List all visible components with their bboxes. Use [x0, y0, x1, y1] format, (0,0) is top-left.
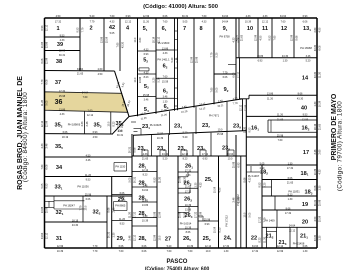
ph8865 box top [114, 201, 128, 203]
lot 26-2 inner box line [178, 192, 190, 194]
svg-text:37: 37 [55, 80, 61, 86]
svg-text:1.30: 1.30 [288, 198, 293, 201]
svg-text:265: 265 [183, 236, 191, 242]
svg-text:PASCO: PASCO [167, 259, 188, 265]
lot 23-4 east line [195, 107, 197, 134]
lot 25 east line [218, 156, 220, 248]
lot 23 mini box left 1 [159, 150, 161, 156]
sliver west line [242, 99, 244, 131]
svg-text:6.93: 6.93 [126, 15, 131, 18]
svg-text:25.98: 25.98 [154, 211, 157, 218]
lot 23-2 east line [151, 135, 153, 156]
lot 23 mini box right 3 [205, 150, 207, 156]
svg-text:15.59: 15.59 [214, 186, 217, 193]
lot 6-1 south line [156, 49, 175, 51]
svg-text:7.60: 7.60 [202, 15, 207, 18]
svg-text:1.30: 1.30 [163, 100, 168, 103]
passage tick 3 [175, 58, 178, 60]
diagonal B main [129, 99, 242, 117]
svg-text:10.0: 10.0 [218, 128, 223, 131]
svg-text:34.64: 34.64 [222, 15, 229, 18]
svg-text:21.65: 21.65 [185, 186, 192, 189]
svg-text:18.19: 18.19 [314, 123, 317, 130]
svg-text:331: 331 [55, 185, 63, 191]
svg-text:6.93: 6.93 [93, 131, 98, 134]
svg-text:43.30: 43.30 [314, 234, 317, 241]
svg-text:6.06: 6.06 [142, 245, 147, 248]
lot 16 south line [246, 136, 317, 138]
svg-text:1: 1 [56, 26, 59, 32]
svg-text:8.66: 8.66 [244, 177, 247, 182]
lot 25 inner box line [198, 215, 203, 217]
svg-text:34.64: 34.64 [142, 189, 149, 192]
lot 26-2 inner box right [189, 188, 191, 193]
lot 34 south line [45, 176, 133, 178]
lot 21 inner line1 [266, 227, 268, 248]
svg-text:161: 161 [251, 126, 259, 132]
svg-text:9.53: 9.53 [259, 182, 262, 187]
svg-text:6.93: 6.93 [303, 15, 308, 18]
ph1150 box right [126, 163, 128, 172]
svg-text:5.05: 5.05 [129, 177, 132, 182]
svg-text:2.60: 2.60 [112, 207, 115, 212]
lot 28-2 south line [132, 186, 157, 188]
lot 29 inner line [112, 220, 132, 222]
svg-text:12.12: 12.12 [46, 24, 49, 31]
svg-text:5.20: 5.20 [176, 57, 179, 62]
svg-text:5.20: 5.20 [158, 77, 161, 82]
svg-text:11.26: 11.26 [129, 211, 132, 218]
svg-text:10.39: 10.39 [314, 168, 317, 175]
svg-text:8.23: 8.23 [259, 237, 262, 242]
lot 29 east line [131, 134, 133, 248]
svg-text:36: 36 [55, 99, 63, 106]
svg-text:30.31: 30.31 [108, 231, 111, 238]
lot 1 south line [45, 36, 81, 38]
lot 23 mini box top 4 [228, 149, 234, 151]
lot 26-4 south line [178, 228, 198, 230]
svg-text:1.30: 1.30 [303, 250, 308, 253]
svg-text:43.30: 43.30 [122, 41, 125, 48]
svg-text:11.26: 11.26 [277, 114, 284, 117]
svg-text:13.86: 13.86 [162, 47, 169, 50]
svg-text:13.86: 13.86 [41, 206, 44, 213]
svg-text:14: 14 [302, 76, 309, 82]
svg-text:1.30: 1.30 [288, 162, 293, 165]
svg-text:12: 12 [281, 26, 287, 32]
svg-text:8: 8 [199, 26, 202, 32]
lot 23 mini box top 2 [181, 149, 187, 151]
passage tick 6 [175, 87, 178, 89]
svg-text:10.0: 10.0 [134, 77, 137, 82]
svg-text:8.66: 8.66 [134, 147, 137, 152]
svg-text:17: 17 [303, 150, 309, 156]
main east vertical [245, 99, 247, 248]
lot 21 inner line4 [296, 227, 298, 248]
lot 5-2 inner box left [138, 68, 140, 71]
svg-text:25.98: 25.98 [217, 133, 224, 136]
svg-text:2.60: 2.60 [318, 149, 321, 154]
lot 23 mini box left 3 [199, 150, 201, 156]
svg-text:17.32: 17.32 [185, 169, 192, 172]
svg-text:1.30: 1.30 [283, 60, 288, 63]
svg-text:15.59: 15.59 [157, 132, 164, 135]
svg-text:2.60: 2.60 [314, 27, 317, 32]
lot 22 east line [261, 165, 263, 248]
svg-text:7.60: 7.60 [281, 20, 286, 23]
lot 26-1 inner box right [187, 172, 189, 177]
svg-text:6.06: 6.06 [223, 76, 228, 79]
svg-text:6.06: 6.06 [303, 20, 308, 23]
lot 18b south line [262, 195, 317, 197]
svg-text:30.31: 30.31 [59, 54, 66, 57]
svg-text:15.59: 15.59 [214, 226, 217, 233]
svg-text:38: 38 [56, 59, 62, 65]
sliver east line [240, 156, 242, 248]
lot 23-3 east line [168, 134, 170, 155]
svg-text:6.06: 6.06 [288, 177, 293, 180]
lot 16 inner west line [267, 120, 269, 132]
svg-text:30.31: 30.31 [129, 146, 132, 153]
svg-text:2: 2 [89, 26, 92, 32]
lot 39 south line [45, 50, 81, 52]
svg-text:5.05: 5.05 [41, 183, 44, 188]
svg-text:27: 27 [165, 237, 171, 243]
svg-text:10.39: 10.39 [157, 137, 164, 140]
svg-text:12.99: 12.99 [46, 57, 49, 64]
svg-text:4.33: 4.33 [263, 15, 268, 18]
svg-text:7.60: 7.60 [211, 87, 214, 92]
svg-text:10.0: 10.0 [228, 158, 233, 161]
lot 16 inner tick line [270, 120, 272, 132]
passage tick 4 [175, 67, 178, 69]
svg-text:25.98: 25.98 [184, 211, 187, 218]
ph1150 box left [113, 163, 115, 172]
svg-text:25.98: 25.98 [204, 218, 211, 221]
passage tick 5 [175, 77, 178, 79]
svg-text:12.12: 12.12 [277, 245, 284, 248]
lot 35-2 east line [83, 111, 85, 133]
svg-text:4.50: 4.50 [93, 136, 98, 139]
svg-text:7.60: 7.60 [117, 42, 120, 47]
svg-text:43.30: 43.30 [297, 97, 304, 100]
svg-text:6.06: 6.06 [303, 245, 308, 248]
svg-text:162: 162 [302, 126, 310, 132]
svg-text:12.12: 12.12 [289, 229, 296, 232]
lot 31 east line [106, 196, 108, 248]
svg-text:181: 181 [301, 171, 309, 177]
lower 23 row south line [132, 155, 246, 157]
lot 28-4 south line [132, 217, 157, 219]
svg-text:4.33: 4.33 [246, 15, 251, 18]
svg-text:13.86: 13.86 [185, 209, 192, 212]
svg-text:43.30: 43.30 [236, 34, 239, 41]
svg-text:6.06: 6.06 [233, 72, 236, 77]
svg-text:(Código: 41000) Altura: 500: (Código: 41000) Altura: 500 [143, 4, 218, 10]
svg-text:3.46: 3.46 [46, 143, 49, 148]
svg-text:7.60: 7.60 [83, 96, 88, 99]
lot 28-1 south line [132, 171, 157, 173]
svg-text:5.05: 5.05 [249, 212, 252, 217]
svg-text:12.12: 12.12 [142, 169, 149, 172]
svg-text:10.0: 10.0 [244, 212, 247, 217]
svg-text:9.53: 9.53 [86, 179, 91, 182]
lot 23 mini box left 4 [227, 150, 229, 156]
ph1150 box bottom [114, 170, 127, 172]
svg-text:4.50: 4.50 [219, 187, 222, 192]
svg-text:4.33: 4.33 [41, 143, 44, 148]
svg-text:8.66: 8.66 [108, 207, 111, 212]
svg-text:30.31: 30.31 [314, 199, 317, 206]
svg-text:4.50: 4.50 [260, 35, 263, 40]
svg-text:PH 18247: PH 18247 [63, 204, 75, 208]
svg-text:15.59: 15.59 [318, 215, 321, 222]
svg-text:4.50: 4.50 [318, 27, 321, 32]
lot 23-6 east line [210, 133, 212, 156]
svg-text:1.30: 1.30 [318, 235, 321, 240]
svg-text:12.12: 12.12 [46, 232, 49, 239]
lot 23 mini box left 0 [141, 150, 143, 156]
svg-text:7.79: 7.79 [93, 250, 98, 253]
svg-text:10.0: 10.0 [118, 129, 123, 132]
svg-text:18.19: 18.19 [153, 36, 156, 43]
wedge box right [140, 129, 142, 136]
svg-text:11.26: 11.26 [143, 20, 150, 23]
svg-text:11.26: 11.26 [142, 199, 149, 202]
svg-text:4.50: 4.50 [56, 15, 61, 18]
ph1150 box top [114, 162, 127, 164]
svg-text:4.33: 4.33 [202, 20, 207, 23]
lot 26-3 inner box right [188, 207, 190, 213]
lot 6-2 south line [156, 77, 175, 79]
svg-text:PH 1150: PH 1150 [115, 165, 125, 169]
svg-text:263: 263 [184, 197, 192, 203]
svg-text:9.53: 9.53 [269, 35, 272, 40]
lot 28 east line [156, 156, 158, 248]
svg-text:7.79: 7.79 [211, 52, 214, 57]
svg-text:PH 17312: PH 17312 [225, 215, 229, 227]
svg-text:7.79: 7.79 [82, 27, 85, 32]
lot 16 inner south line [268, 131, 317, 133]
svg-text:5.20: 5.20 [171, 57, 174, 62]
lot 5-2 south line [138, 73, 157, 75]
svg-text:7.60: 7.60 [188, 250, 193, 253]
svg-text:12.12: 12.12 [262, 20, 269, 23]
svg-text:21.65: 21.65 [241, 34, 244, 41]
passage tick 8 [175, 105, 178, 107]
svg-text:6.93: 6.93 [41, 25, 44, 30]
svg-text:12.99: 12.99 [143, 15, 150, 18]
svg-text:3.46: 3.46 [144, 99, 149, 102]
upper 23 row south line [133, 131, 246, 136]
lot 10 east line [257, 18, 259, 58]
svg-text:12.12: 12.12 [240, 104, 243, 111]
svg-text:13.86: 13.86 [139, 76, 142, 83]
svg-text:20: 20 [302, 220, 308, 226]
svg-text:25.98: 25.98 [46, 206, 49, 213]
svg-text:6.06: 6.06 [41, 58, 44, 63]
svg-text:92: 92 [224, 87, 229, 93]
svg-text:13.86: 13.86 [101, 36, 104, 43]
svg-text:10.39: 10.39 [185, 204, 192, 207]
lot 26-1 inner box line [178, 176, 188, 178]
svg-text:12.99: 12.99 [46, 120, 49, 127]
lot 2 east line [103, 18, 105, 71]
lot 5-2 inner box bottom [139, 70, 149, 72]
svg-text:4.33: 4.33 [186, 174, 191, 177]
svg-text:PH 9758: PH 9758 [219, 35, 230, 39]
svg-text:30.31: 30.31 [117, 134, 124, 137]
svg-text:12.12: 12.12 [87, 114, 94, 117]
svg-text:18.19: 18.19 [72, 219, 79, 222]
svg-text:5.20: 5.20 [143, 215, 148, 218]
svg-text:7.60: 7.60 [274, 35, 277, 40]
lot 23 mini box right 1 [165, 150, 167, 156]
svg-text:12.99: 12.99 [277, 250, 284, 253]
lot 5 east line [155, 18, 157, 114]
svg-text:4.33: 4.33 [200, 182, 203, 187]
block boundary right [316, 18, 318, 248]
svg-text:12.99: 12.99 [291, 34, 294, 41]
svg-text:15.59: 15.59 [106, 36, 109, 43]
svg-text:11.26: 11.26 [244, 126, 247, 133]
svg-text:43.30: 43.30 [184, 176, 187, 183]
lot 26 east line [197, 156, 199, 248]
svg-text:6.06: 6.06 [314, 185, 317, 190]
svg-text:6.06: 6.06 [86, 198, 91, 201]
block boundary bottom [45, 247, 318, 249]
svg-text:7.79: 7.79 [90, 20, 95, 23]
diagonal A west [115, 71, 130, 117]
ph18247 box bottom [54, 208, 84, 210]
svg-text:10.0: 10.0 [108, 121, 111, 126]
ph8865 box right [126, 202, 128, 211]
svg-text:6.06: 6.06 [119, 245, 124, 248]
lot 23 mini box top 0 [142, 149, 148, 151]
ph11467 box top [246, 171, 262, 173]
svg-text:8.23: 8.23 [112, 121, 115, 126]
svg-text:236: 236 [197, 146, 205, 152]
svg-text:43.30: 43.30 [72, 224, 79, 227]
svg-text:239: 239 [233, 124, 241, 130]
svg-text:25.98: 25.98 [277, 134, 284, 137]
svg-text:6.06: 6.06 [163, 15, 168, 18]
svg-text:4.33: 4.33 [143, 153, 148, 156]
lot 32 small box line3 [48, 201, 50, 207]
lot 26-3 south line [178, 206, 198, 208]
svg-text:5.20: 5.20 [183, 136, 188, 139]
svg-text:10.39: 10.39 [142, 220, 149, 223]
svg-text:17.32: 17.32 [134, 211, 137, 218]
lot 33 south line [45, 195, 133, 197]
lot 29 west line [111, 177, 113, 248]
svg-text:4.33: 4.33 [60, 113, 65, 116]
lot 19 inner line [274, 196, 276, 210]
svg-text:4.33: 4.33 [318, 169, 321, 174]
svg-text:11.26: 11.26 [119, 218, 126, 221]
svg-text:12.12: 12.12 [158, 36, 161, 43]
wedge box top [134, 128, 142, 130]
wedge box mid [134, 131, 138, 133]
svg-text:10.39: 10.39 [57, 250, 64, 253]
svg-text:21.65: 21.65 [77, 73, 84, 76]
lot 6-3 south line [156, 97, 175, 99]
lot 25 inner box right [202, 216, 204, 221]
lot 23-5 east line [192, 133, 194, 155]
svg-text:4.33: 4.33 [163, 52, 168, 55]
svg-text:10.0: 10.0 [84, 205, 87, 210]
svg-text:7.60: 7.60 [110, 15, 115, 18]
svg-text:7.79: 7.79 [41, 79, 44, 84]
ph18247 box top [54, 200, 84, 202]
svg-text:1.30: 1.30 [314, 101, 317, 106]
svg-text:34.64: 34.64 [82, 91, 89, 94]
svg-text:17.32: 17.32 [238, 71, 241, 78]
svg-text:4.50: 4.50 [314, 216, 317, 221]
svg-text:355: 355 [55, 144, 63, 150]
svg-text:10.39: 10.39 [185, 226, 192, 229]
svg-text:25.98: 25.98 [179, 211, 182, 218]
svg-text:7.79: 7.79 [80, 205, 83, 210]
lot 23 mini box left 2 [180, 150, 182, 156]
lot 23 mini box top 1 [160, 149, 166, 151]
svg-text:40: 40 [301, 106, 307, 112]
svg-text:17.32: 17.32 [185, 190, 192, 193]
svg-text:353: 353 [94, 123, 102, 129]
svg-text:PH 1898 B: PH 1898 B [68, 123, 81, 127]
svg-text:39: 39 [57, 42, 63, 48]
svg-text:61: 61 [162, 26, 167, 32]
lot 24 east line [235, 135, 237, 248]
svg-text:6.06: 6.06 [63, 131, 68, 134]
svg-text:12.99: 12.99 [191, 56, 194, 63]
passage strip line [177, 18, 179, 110]
lot 32 small box line [45, 200, 55, 202]
svg-text:8.23: 8.23 [219, 227, 222, 232]
svg-text:10: 10 [247, 26, 253, 32]
svg-text:11.26: 11.26 [318, 71, 321, 78]
lot 5-1 south line [138, 50, 157, 52]
svg-text:43.30: 43.30 [162, 153, 169, 156]
svg-text:7.60: 7.60 [41, 164, 44, 169]
passage tick 0 [175, 30, 178, 32]
svg-text:8.23: 8.23 [288, 193, 293, 196]
svg-text:9.53: 9.53 [60, 34, 65, 37]
svg-text:2.60: 2.60 [260, 167, 265, 170]
lot 18b inner line [271, 180, 273, 197]
svg-text:10.39: 10.39 [318, 100, 321, 107]
svg-text:34.64: 34.64 [227, 153, 234, 156]
lot 27 east line [177, 156, 179, 248]
passage tick 7 [175, 97, 178, 99]
svg-text:11.26: 11.26 [159, 176, 162, 183]
svg-text:25.98: 25.98 [318, 199, 321, 206]
svg-text:12.99: 12.99 [200, 211, 203, 218]
svg-text:30.31: 30.31 [134, 176, 137, 183]
svg-text:7.60: 7.60 [278, 139, 283, 142]
svg-text:6.06: 6.06 [46, 79, 49, 84]
svg-text:234: 234 [174, 124, 182, 130]
svg-text:21.65: 21.65 [277, 119, 284, 122]
svg-text:6.93: 6.93 [258, 60, 263, 63]
svg-text:12.12: 12.12 [134, 234, 137, 241]
svg-text:292: 292 [117, 236, 125, 242]
svg-text:6.06: 6.06 [142, 250, 147, 253]
lot 35-1 south line [45, 156, 133, 158]
lot 14 west line [239, 58, 241, 99]
svg-text:43.30: 43.30 [314, 44, 317, 51]
svg-text:4.50: 4.50 [98, 73, 103, 76]
